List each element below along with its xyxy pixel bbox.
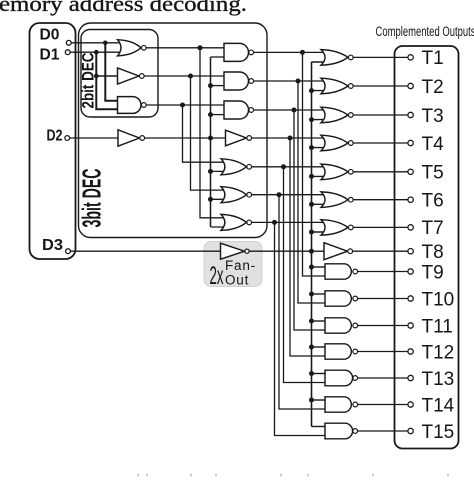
NOR gate T3 driver (321, 107, 353, 123)
NAND gate T9 driver (325, 264, 358, 279)
caption fragment specks (next text line, clipped) (137, 474, 449, 477)
wire D0 vertical to G3 (105, 43, 119, 101)
junction net M3 (292, 108, 297, 113)
terminal T5 (408, 169, 413, 174)
svg-text:2x: 2x (210, 262, 224, 290)
inverter U11 (D2) (118, 130, 145, 146)
wire net M1 vertical (303, 52, 327, 276)
junction D3B at T3 gate (309, 117, 314, 122)
wire D3B stub to T5 gate (312, 175, 330, 177)
NAND gate U4 (224, 43, 254, 61)
wire net D2N (U11 out) (144, 137, 226, 139)
svg-text:T5: T5 (422, 163, 444, 184)
junction net M1 (300, 50, 305, 55)
wire D3B stub to T1 gate (312, 61, 330, 63)
wire net M6 row (252, 194, 330, 196)
NAND gate T10 driver (325, 291, 358, 306)
svg-text:D2: D2 (47, 128, 63, 145)
wire output T15 (358, 430, 408, 432)
svg-text:Complemented Outputs: Complemented Outputs (376, 24, 474, 39)
wire D3B stub to T14 gate (312, 399, 327, 401)
terminal T1 (408, 55, 413, 60)
wire fan-out output row (249, 250, 325, 252)
terminal T6 (408, 197, 413, 202)
wire D2N stub to U9 (211, 198, 230, 200)
junction net M7 (272, 220, 277, 225)
junction D1 bus (94, 50, 99, 55)
wire D3B stub to T13 gate (312, 373, 327, 375)
input terminal D3 (66, 249, 71, 254)
terminal T10 (408, 296, 413, 301)
junction D3B at T7 gate (309, 230, 314, 235)
svg-text:Fan-: Fan- (225, 258, 256, 273)
wire D1 stub to U2 (96, 75, 119, 77)
svg-text:T2: T2 (422, 77, 444, 98)
terminal T11 (408, 323, 413, 328)
input terminal D2 (65, 136, 70, 141)
wire net M3 vertical (294, 110, 326, 330)
svg-text:D1: D1 (40, 47, 60, 64)
junction D3B at fan-out row (309, 249, 314, 254)
NAND gate T11 driver (325, 318, 358, 333)
NOR gate T5 driver (321, 164, 353, 180)
terminal T9 (408, 269, 413, 274)
svg-text:T11: T11 (422, 316, 453, 337)
wire output T14 (358, 404, 408, 406)
junction net M4 (288, 136, 293, 141)
NAND gate T12 driver (325, 344, 358, 359)
svg-text:T10: T10 (422, 289, 455, 310)
wire D2N stub to U6 (211, 114, 226, 116)
junction D3B at T13 gate (309, 371, 314, 376)
wire net A (U1 out) (146, 47, 225, 49)
wire D3B stub to T4 gate (312, 147, 330, 149)
wire output T9 (358, 271, 408, 273)
svg-text:T9: T9 (422, 262, 444, 283)
svg-text:T4: T4 (422, 134, 445, 155)
NOR gate T6 driver (321, 192, 353, 208)
wire D3B stub to T2 gate (312, 90, 330, 92)
svg-text:T8: T8 (422, 242, 444, 263)
junction D3B at T14 gate (309, 398, 314, 403)
complemented outputs box (395, 46, 459, 449)
NAND gate T13 driver (325, 370, 358, 386)
NOR gate T7 driver (321, 220, 353, 236)
NOR gate T2 driver (321, 78, 353, 94)
wire net M2 row (254, 80, 330, 82)
junction net A (198, 45, 203, 50)
terminal T15 (408, 428, 413, 433)
wire D1 (70, 51, 124, 53)
svg-text:2bit DEC: 2bit DEC (79, 53, 98, 109)
svg-text:T1: T1 (422, 48, 444, 69)
wire D2N stub to U10 (211, 226, 230, 228)
NOR gate U9 (221, 187, 252, 203)
junction D2N at U9 (208, 197, 213, 202)
wire D2N stub to U8 (211, 170, 230, 172)
wire net M1 row (254, 51, 330, 53)
wire D3B stub to T7 gate (312, 231, 330, 233)
junction D3B at T2 gate (309, 88, 314, 93)
wire D2 (70, 137, 119, 139)
wire D3 (70, 250, 221, 252)
NOR gate T1 driver (321, 50, 353, 66)
wire D1 vertical to G2/G3 (96, 52, 119, 109)
junction D1 to inverter U2 (94, 74, 99, 79)
svg-text:Out: Out (225, 273, 249, 288)
wire output T4 (353, 142, 408, 144)
wire D3B stub to T15 gate (312, 426, 327, 428)
junction D2N at U6 (208, 112, 213, 117)
wire net B vertical to U9 (191, 76, 230, 190)
terminal T2 (408, 83, 413, 88)
2bit DEC block box (81, 30, 158, 118)
NAND gate U3 (2bit DEC) (118, 97, 147, 114)
terminal T13 (408, 375, 413, 380)
fan-out gray highlight box (204, 242, 262, 287)
inverter T8 driver (324, 243, 353, 260)
terminal T12 (408, 349, 413, 354)
svg-text:D0: D0 (40, 27, 60, 44)
wire net C vertical to U8 (183, 105, 230, 162)
wire D3B stub to T11 gate (312, 320, 327, 322)
wire net M7 row (252, 221, 330, 223)
svg-text:T3: T3 (422, 106, 444, 127)
NOR gate T4 driver (321, 135, 353, 151)
wire net D2N vertical bus (210, 57, 212, 227)
wire output T6 (353, 199, 408, 201)
junction D3B at T10 gate (309, 292, 314, 297)
svg-text:T12: T12 (422, 342, 455, 363)
NAND gate T14 driver (325, 397, 358, 412)
inverter U7 (226, 130, 252, 146)
svg-text:T14: T14 (422, 395, 455, 416)
wire output T8 (353, 250, 408, 252)
wire output T11 (358, 325, 408, 327)
junction D3B at T12 gate (309, 345, 314, 350)
svg-text:T13: T13 (422, 369, 455, 390)
wire output T12 (358, 351, 408, 353)
3bit DEC block box (79, 23, 268, 238)
wire output T2 (353, 85, 408, 87)
wire net M6 vertical (279, 195, 326, 409)
junction net C (180, 103, 185, 108)
input box D0-D3 (30, 23, 76, 259)
wire output T7 (353, 226, 408, 228)
svg-text:3bit DEC: 3bit DEC (77, 168, 107, 227)
wire D3B stub to T9 gate (312, 266, 327, 268)
svg-text:T15: T15 (422, 422, 455, 443)
NAND gate T15 driver (325, 423, 358, 439)
NAND gate U5 (224, 72, 254, 90)
inverter U2 (2bit DEC) (118, 68, 145, 84)
junction net D2N (208, 136, 213, 141)
junction net B (188, 74, 193, 79)
svg-text:T6: T6 (422, 191, 444, 212)
junction D0 bus (103, 41, 108, 46)
wire net M7 vertical (275, 222, 327, 435)
wire output T13 (358, 377, 408, 379)
wire net M2 vertical (298, 81, 326, 303)
wire net M4 row (252, 137, 330, 139)
NOR gate U8 (221, 159, 252, 175)
wire output T10 (358, 298, 408, 300)
wire D3B stub to T3 gate (312, 119, 330, 121)
wire net M3 row (254, 109, 330, 111)
wire net C (U3 out) (146, 104, 225, 106)
junction net M2 (296, 79, 301, 84)
junction D3B at T11 gate (309, 319, 314, 324)
wire D2N stub to U4 (211, 56, 226, 58)
wire net M4 vertical (290, 138, 326, 356)
wire net D3B vertical bus (311, 62, 313, 427)
terminal T7 (408, 225, 413, 230)
junction net M6 (277, 192, 282, 197)
junction D2N at U8 (208, 169, 213, 174)
junction D3B at T6 gate (309, 202, 314, 207)
wire D3B stub to T12 gate (312, 346, 327, 348)
terminal T8 (408, 249, 413, 254)
wire output T3 (353, 114, 408, 116)
wire D3B stub to T10 gate (312, 293, 327, 295)
wire net M5 vertical (284, 167, 327, 383)
NOR gate U10 (221, 214, 252, 230)
junction D2N at U5 (208, 83, 213, 88)
wire D2N stub to U5 (211, 85, 226, 87)
wire D0 (71, 42, 124, 44)
terminal T14 (408, 402, 413, 407)
wire net M5 row (252, 166, 330, 168)
svg-text:D3: D3 (42, 237, 63, 254)
junction D3B at T4 gate (309, 145, 314, 150)
wire output T5 (353, 171, 408, 173)
input terminal D0 (66, 40, 71, 45)
junction D3B at T9 gate (309, 265, 314, 270)
terminal T4 (408, 140, 413, 145)
svg-text:T7: T7 (422, 218, 444, 239)
NAND gate U6 (224, 101, 254, 119)
junction D3B at T5 gate (309, 174, 314, 179)
wire D3B stub to T6 gate (312, 203, 330, 205)
svg-text:emory address decoding.: emory address decoding. (0, 0, 247, 16)
fan-out buffer U12 (221, 243, 250, 259)
input terminal D1 (65, 50, 70, 55)
wire net A vertical to U10 (200, 48, 230, 218)
terminal T3 (408, 112, 413, 117)
junction net M5 (281, 164, 286, 169)
NOR gate U1 (2bit DEC) (118, 40, 147, 56)
wire output T1 (353, 56, 408, 58)
wire net B (U2 out) (144, 75, 225, 77)
